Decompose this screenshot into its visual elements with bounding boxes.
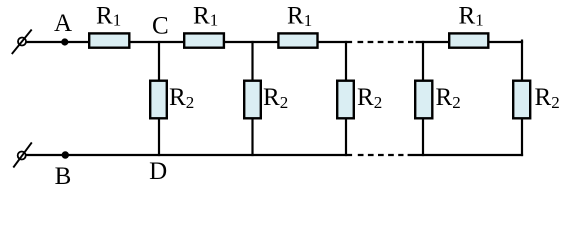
wire: R2b down to bottom rail [251,118,253,156]
svg-text:R2: R2 [263,84,288,112]
wire: right edge down to R2e [521,40,523,82]
svg-text:R2: R2 [436,84,461,112]
wire: R1b to R1c [223,41,279,43]
wire: R1a to R1b through node C [130,41,186,43]
svg-text:R1: R1 [193,2,218,29]
resistor R1 (first series) [89,33,129,47]
wire: bottom rail from terminal B to third branch [26,154,353,156]
wire: fourth branch down to R2d [422,41,424,81]
node A (junction dot) [61,38,68,45]
wire: R1d to top-right corner [488,41,523,43]
resistor R2 (fourth shunt) [415,81,432,119]
wire: R2c down to bottom rail [345,118,347,156]
svg-text:R1: R1 [287,3,312,30]
svg-text:R2: R2 [169,84,194,112]
wire: node C down to R2a [158,41,160,81]
wire: second branch down to R2b [251,41,253,81]
resistor R2 (fifth shunt) [513,81,530,119]
resistor R2 (first shunt) [150,81,167,119]
wire: top rail resuming to R1d [416,41,451,43]
wire: R1c to third branch [318,41,353,43]
svg-text:C: C [152,12,169,39]
wire: R2e down to bottom rail [521,118,523,156]
terminal B (bottom-left input) [13,142,32,167]
svg-text:A: A [54,10,72,37]
wire: R2a down to bottom rail at node D [158,118,160,156]
wire: dashed continuation of top rail [358,41,414,43]
svg-text:B: B [55,163,72,190]
wire: R2d down to bottom rail [422,118,424,156]
svg-text:R1: R1 [96,2,121,29]
wire: bottom rail resuming to right edge [408,154,523,156]
wire: dashed continuation of bottom rail [358,154,404,156]
resistor R1 (second series) [184,33,224,47]
resistor R1 (third series) [278,33,317,47]
terminal A (top-left input) [12,30,32,55]
resistor R1 (fourth series) [449,33,488,47]
wire: terminal A to resistor R1a [26,41,90,43]
node B (junction dot) [62,151,69,158]
wire: third branch down to R2c [345,41,347,81]
svg-text:D: D [149,158,167,185]
svg-text:R2: R2 [357,84,382,112]
svg-text:R2: R2 [535,84,560,112]
svg-text:R1: R1 [459,2,484,29]
resistor R2 (third shunt) [337,81,354,119]
resistor R2 (second shunt) [244,81,261,119]
